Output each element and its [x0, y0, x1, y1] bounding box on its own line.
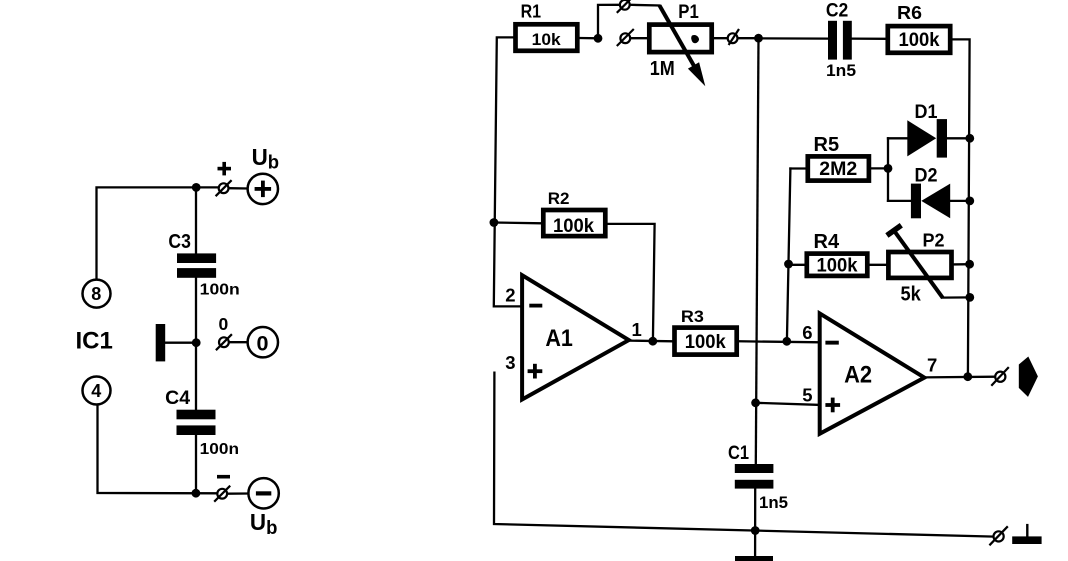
svg-text:5k: 5k [901, 284, 922, 306]
svg-text:A2: A2 [844, 362, 872, 389]
svg-text:2M2: 2M2 [819, 159, 857, 180]
svg-text:C2: C2 [826, 0, 848, 21]
svg-text:1n5: 1n5 [759, 493, 788, 512]
svg-text:1: 1 [632, 319, 642, 340]
svg-text:C4: C4 [165, 388, 190, 409]
svg-text:A1: A1 [545, 325, 573, 352]
svg-text:R6: R6 [897, 3, 922, 23]
svg-text:100k: 100k [685, 331, 726, 353]
svg-text:10k: 10k [532, 30, 562, 49]
svg-text:3: 3 [505, 352, 515, 373]
svg-text:D1: D1 [915, 102, 938, 123]
svg-text:P1: P1 [678, 2, 699, 23]
svg-text:R5: R5 [814, 134, 840, 156]
svg-text:5: 5 [802, 385, 812, 406]
svg-text:C1: C1 [728, 443, 749, 464]
svg-text:D2: D2 [915, 166, 938, 187]
svg-text:7: 7 [927, 355, 937, 376]
svg-text:IC1: IC1 [76, 327, 113, 354]
svg-text:R3: R3 [681, 307, 704, 326]
svg-text:8: 8 [91, 284, 101, 304]
svg-text:1n5: 1n5 [826, 61, 856, 80]
svg-text:R4: R4 [814, 231, 840, 253]
svg-text:100k: 100k [899, 29, 940, 51]
svg-text:R2: R2 [548, 189, 570, 208]
svg-text:100k: 100k [553, 215, 594, 237]
svg-text:100k: 100k [817, 255, 858, 277]
svg-text:C3: C3 [168, 231, 191, 253]
svg-text:4: 4 [91, 381, 101, 401]
svg-text:100n: 100n [200, 441, 239, 458]
svg-text:1M: 1M [650, 58, 675, 80]
svg-text:2: 2 [505, 285, 515, 306]
svg-text:100n: 100n [200, 282, 240, 299]
svg-text:R1: R1 [521, 2, 542, 22]
svg-text:P2: P2 [923, 230, 945, 250]
svg-text:0: 0 [219, 314, 229, 334]
svg-text:6: 6 [802, 322, 812, 343]
svg-text:0: 0 [257, 333, 269, 356]
